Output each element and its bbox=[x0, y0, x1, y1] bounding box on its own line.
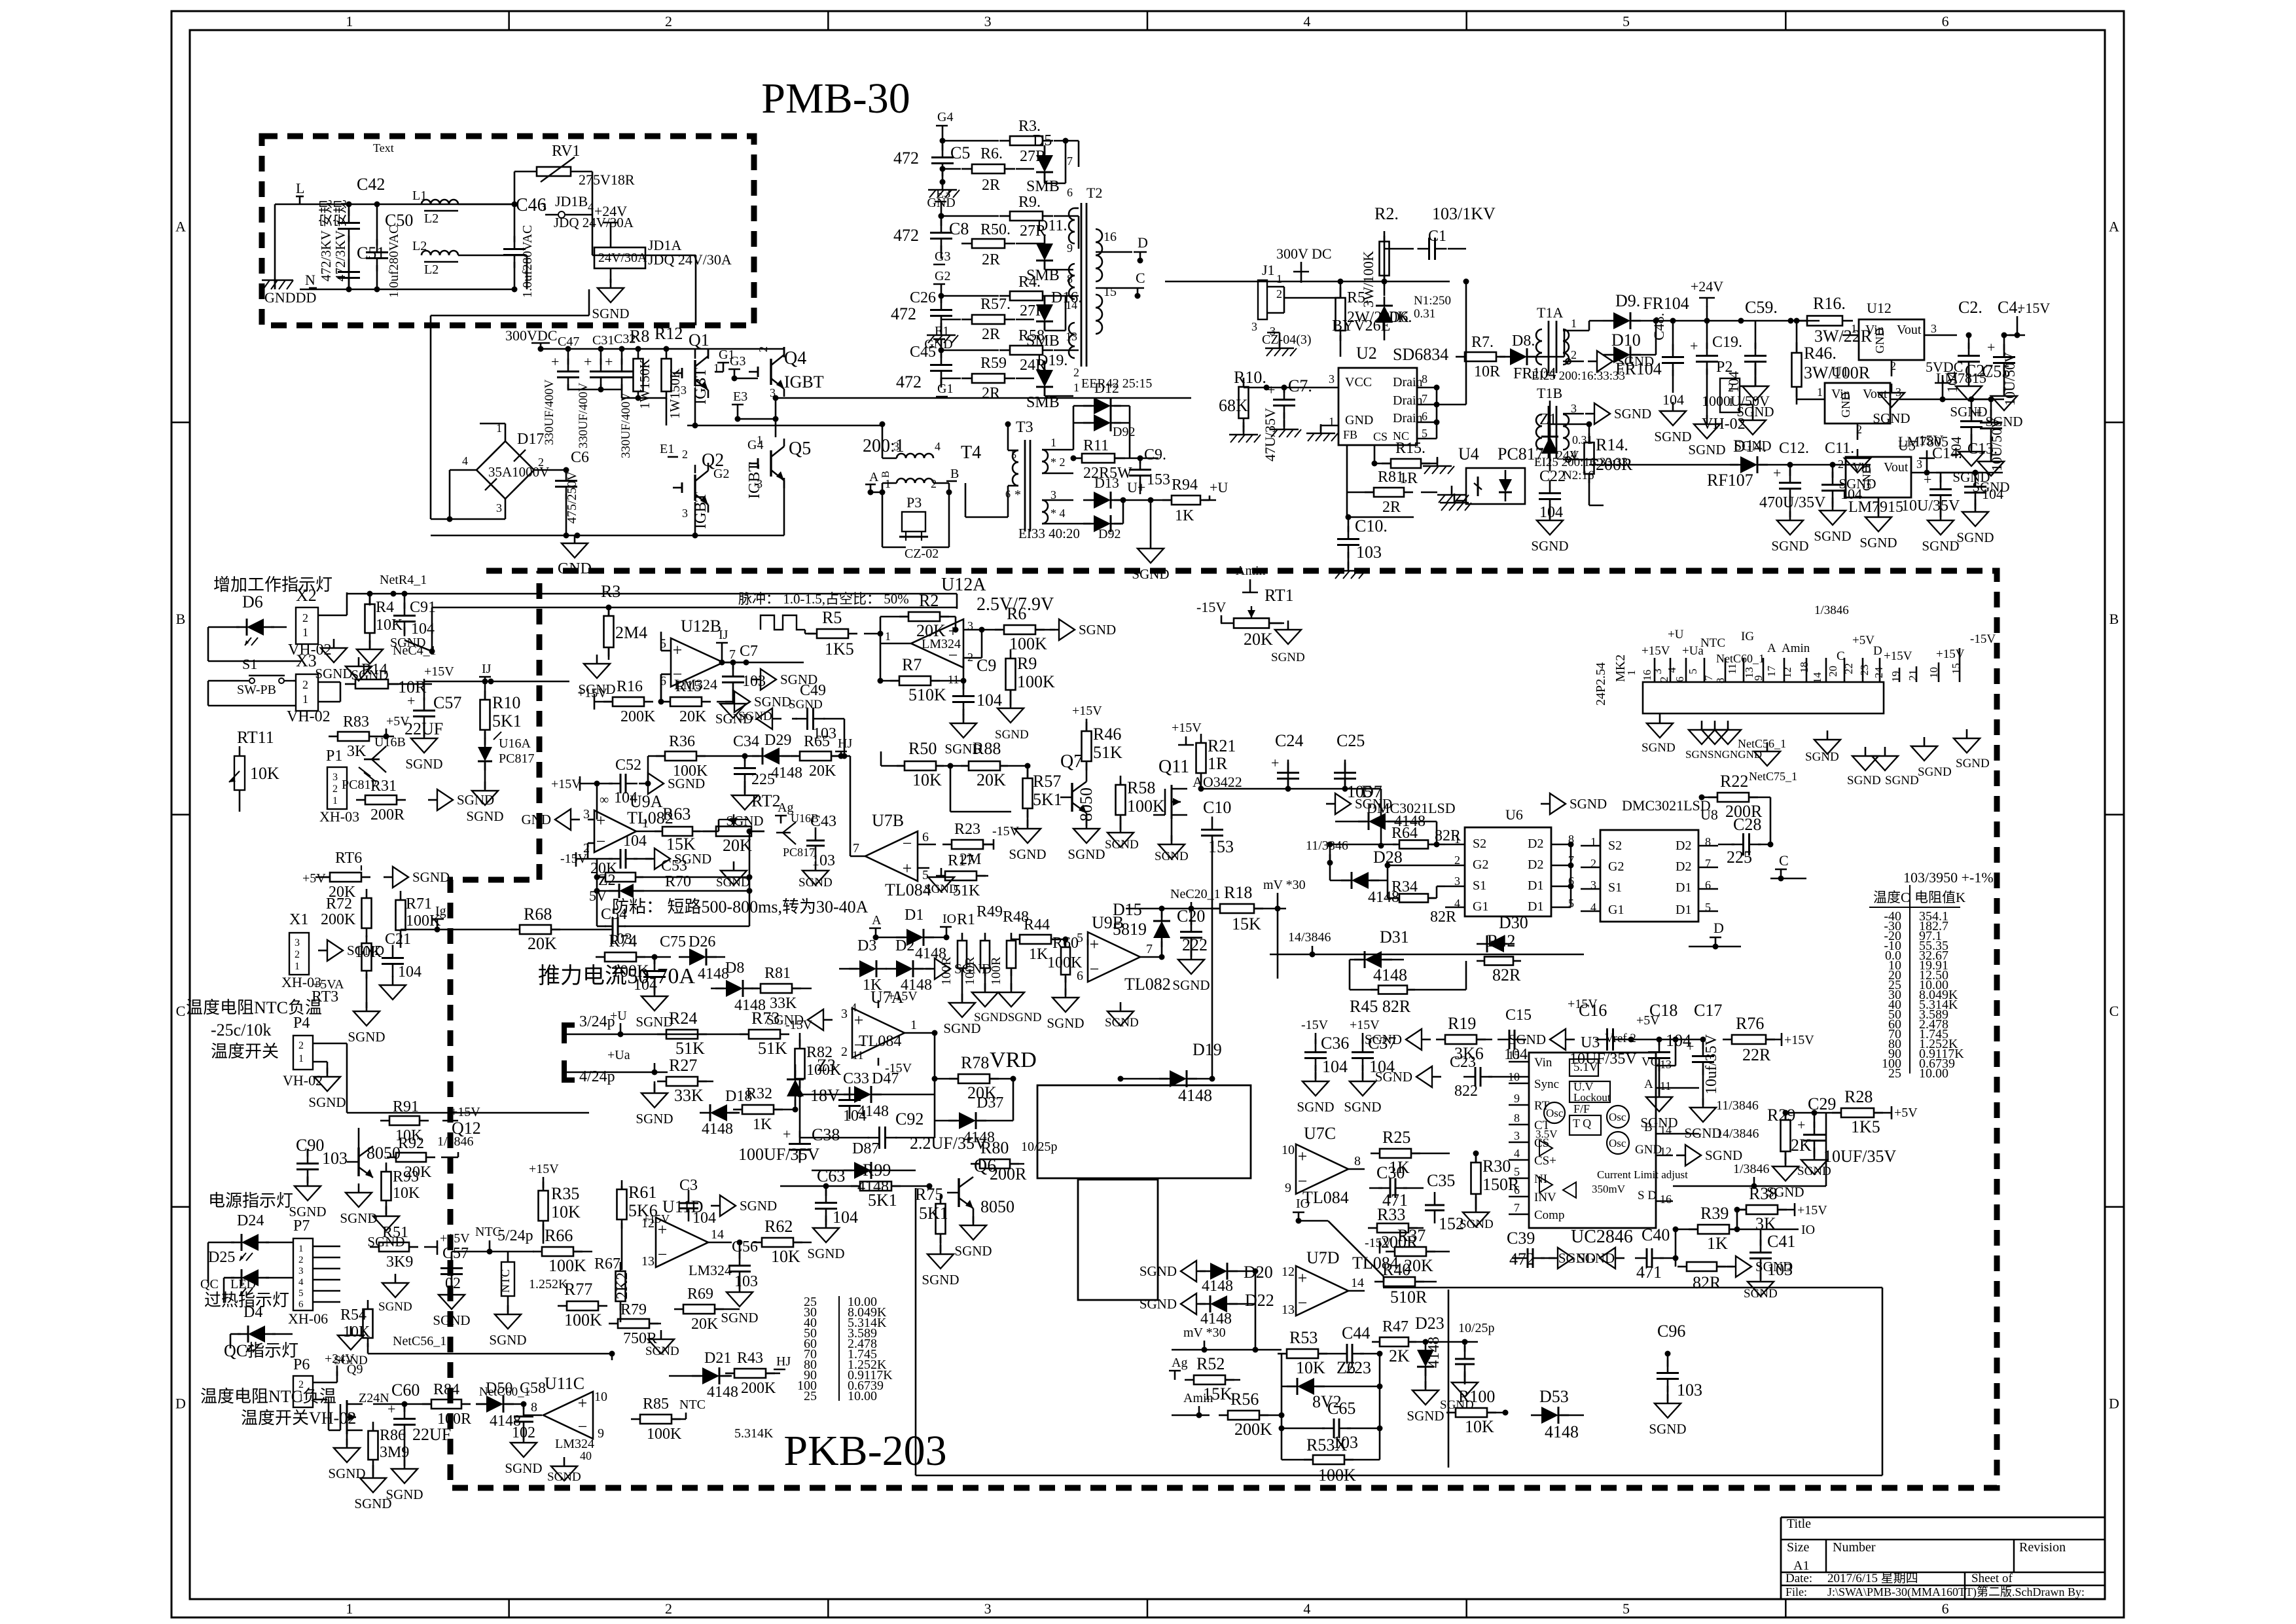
ground C29 bbox=[1814, 1151, 1816, 1160]
svg-text:+: + bbox=[605, 353, 613, 370]
capacitor C51 bbox=[338, 244, 385, 291]
svg-text:C18: C18 bbox=[1649, 1001, 1677, 1020]
svg-text:R74: R74 bbox=[609, 931, 637, 950]
svg-text:R8: R8 bbox=[630, 327, 649, 346]
svg-text:15: 15 bbox=[1508, 1049, 1520, 1062]
svg-text:R85: R85 bbox=[643, 1396, 669, 1413]
ground C17 bbox=[1702, 1098, 1704, 1108]
svg-text:18: 18 bbox=[1798, 662, 1810, 673]
svg-text:mV *30: mV *30 bbox=[1263, 878, 1306, 892]
svg-text:C55: C55 bbox=[1982, 362, 2010, 381]
svg-text:IG: IG bbox=[1741, 630, 1754, 643]
capacitor C13 104 bbox=[1936, 441, 2003, 509]
svg-text:GND: GND bbox=[1345, 413, 1373, 427]
capacitor C17 10uf/35V bbox=[1686, 1001, 1722, 1105]
svg-text:U16B: U16B bbox=[374, 735, 406, 749]
terminal D flag2 bbox=[1689, 920, 1741, 950]
svg-text:300VDC: 300VDC bbox=[505, 327, 557, 344]
svg-text:SGND: SGND bbox=[308, 1094, 346, 1110]
diode D5 SMB bbox=[1016, 132, 1066, 195]
svg-text:T4: T4 bbox=[961, 442, 981, 463]
svg-text:6: 6 bbox=[298, 1299, 304, 1310]
ground C18 bbox=[1659, 1088, 1660, 1097]
svg-text:PC817: PC817 bbox=[499, 751, 534, 766]
resistor R67 2K2 bbox=[594, 1255, 631, 1322]
connector P3 CZ-02 bbox=[882, 492, 949, 561]
diode D7 4148 bbox=[0, 0, 1, 1]
resistor R14 200R bbox=[1550, 424, 1633, 505]
capacitor C36 104 bbox=[1304, 1034, 1349, 1079]
ground Q11 bbox=[1171, 835, 1173, 844]
svg-text:8: 8 bbox=[1514, 1111, 1520, 1125]
ground SGND C91b bbox=[358, 657, 360, 666]
svg-text:24: 24 bbox=[1873, 667, 1885, 679]
svg-text:L1: L1 bbox=[412, 189, 427, 203]
svg-text:QC指示灯: QC指示灯 bbox=[224, 1341, 298, 1360]
svg-text:D15: D15 bbox=[1113, 900, 1142, 919]
svg-text:6: 6 bbox=[1674, 677, 1686, 683]
svg-text:R61: R61 bbox=[628, 1183, 656, 1202]
svg-text:R14.: R14. bbox=[1596, 435, 1628, 454]
svg-text:3.5V: 3.5V bbox=[1535, 1128, 1558, 1140]
svg-text:+15V: +15V bbox=[424, 664, 454, 679]
svg-text:SGND: SGND bbox=[1649, 1421, 1686, 1437]
svg-text:100K: 100K bbox=[1017, 672, 1055, 691]
ground D23 bbox=[1425, 1381, 1427, 1390]
net 14/3846 flag bbox=[1270, 930, 1361, 958]
svg-text:2: 2 bbox=[757, 346, 770, 352]
svg-text:PMB-30: PMB-30 bbox=[761, 75, 910, 122]
svg-text:C10.: C10. bbox=[1355, 516, 1388, 535]
ground U2 GND pin bbox=[1306, 424, 1338, 441]
svg-text:VH-02: VH-02 bbox=[287, 708, 331, 725]
svg-text:+5V: +5V bbox=[386, 714, 410, 729]
svg-text:R76: R76 bbox=[1736, 1014, 1764, 1033]
net 1/3846 out bbox=[1673, 1113, 1826, 1189]
svg-text:SGND: SGND bbox=[1271, 651, 1305, 664]
ground SGND C49 bbox=[772, 718, 781, 720]
svg-text:11/3846: 11/3846 bbox=[1716, 1098, 1759, 1113]
svg-text:+15V: +15V bbox=[577, 686, 607, 700]
svg-text:D14.: D14. bbox=[1733, 437, 1767, 456]
svg-text:R7.: R7. bbox=[1471, 334, 1494, 351]
svg-text:R15: R15 bbox=[675, 678, 702, 695]
resistor R66 100K bbox=[533, 1226, 592, 1275]
svg-text:10: 10 bbox=[1282, 1143, 1295, 1157]
LED D24 bbox=[208, 1212, 293, 1283]
wire Q1 Q4 tops bbox=[695, 347, 784, 359]
ground SGND RT6 bbox=[384, 876, 393, 878]
svg-text:SGND: SGND bbox=[1847, 774, 1881, 787]
svg-text:200K: 200K bbox=[741, 1380, 776, 1397]
ground R57 bbox=[1027, 820, 1029, 829]
svg-text:SGND: SGND bbox=[1407, 1408, 1444, 1424]
svg-text:82R: 82R bbox=[1430, 909, 1456, 926]
svg-text:R18: R18 bbox=[1224, 883, 1252, 902]
svg-text:14/3846: 14/3846 bbox=[1288, 930, 1331, 945]
resistor R16 200K bbox=[594, 678, 656, 725]
svg-text:2R: 2R bbox=[982, 326, 1000, 343]
svg-text:1: 1 bbox=[1851, 322, 1857, 335]
svg-text:P3: P3 bbox=[906, 494, 922, 511]
svg-text:SGND: SGND bbox=[1577, 1250, 1615, 1266]
net NTC flag R85 bbox=[679, 1398, 706, 1419]
power flag 300V DC aux bbox=[1276, 245, 1332, 283]
resistor R4 27R bbox=[941, 274, 1079, 319]
svg-text:104: 104 bbox=[843, 1108, 867, 1125]
resistor R7 510K bbox=[878, 651, 964, 704]
svg-text:Osc: Osc bbox=[1609, 1137, 1626, 1149]
svg-text:FR104: FR104 bbox=[1615, 359, 1662, 378]
svg-text:6: 6 bbox=[1942, 1600, 1949, 1617]
svg-text:R86: R86 bbox=[380, 1427, 406, 1444]
transistor Q4 IGBT bbox=[749, 346, 824, 399]
svg-text:C41: C41 bbox=[1767, 1232, 1795, 1251]
svg-text:R67: R67 bbox=[594, 1255, 620, 1272]
ground C37 bbox=[1362, 1072, 1364, 1081]
svg-text:L2: L2 bbox=[424, 262, 439, 277]
svg-text:150R: 150R bbox=[1482, 1175, 1520, 1194]
capacitor C26 472 bbox=[891, 289, 952, 333]
svg-text:−: − bbox=[596, 832, 606, 851]
switch S1 SW-PB bbox=[208, 656, 296, 706]
svg-text:HJ: HJ bbox=[776, 1354, 791, 1369]
ground C56 bbox=[739, 1283, 741, 1292]
svg-text:R57.: R57. bbox=[980, 296, 1011, 313]
svg-text:−: − bbox=[1298, 1293, 1308, 1312]
svg-text:4148: 4148 bbox=[1202, 1278, 1233, 1295]
svg-text:SGND: SGND bbox=[789, 698, 823, 712]
IC U3 UC2846 box bbox=[0, 0, 1, 1]
svg-text:3: 3 bbox=[1251, 320, 1257, 333]
svg-text:+: + bbox=[1298, 1269, 1308, 1288]
svg-text:14: 14 bbox=[1066, 298, 1077, 312]
svg-text:1K5: 1K5 bbox=[825, 640, 854, 659]
ground SGND X1 bbox=[318, 950, 327, 952]
terminal C flag2 bbox=[1770, 852, 1806, 882]
svg-text:NetC60_1: NetC60_1 bbox=[1716, 652, 1765, 665]
ground R30 bbox=[1475, 1203, 1477, 1212]
svg-text:SGND: SGND bbox=[1797, 1164, 1831, 1178]
svg-text:U7C: U7C bbox=[1304, 1124, 1336, 1143]
svg-text:3: 3 bbox=[893, 440, 899, 453]
LED D25 bbox=[208, 1249, 293, 1303]
svg-text:SGND: SGND bbox=[716, 876, 750, 890]
svg-text:C90: C90 bbox=[296, 1136, 324, 1155]
resistor R92 20K bbox=[387, 1134, 474, 1181]
diode D19 SMB bbox=[1016, 352, 1073, 411]
svg-text:C33: C33 bbox=[843, 1070, 869, 1087]
power flag +Ua bbox=[607, 1048, 655, 1072]
svg-text:SGND: SGND bbox=[489, 1332, 526, 1348]
svg-text:6: 6 bbox=[1005, 489, 1011, 500]
svg-text:G2: G2 bbox=[935, 269, 950, 283]
svg-text:275V18R: 275V18R bbox=[579, 171, 635, 188]
svg-text:1: 1 bbox=[885, 630, 891, 643]
svg-text:+: + bbox=[1974, 405, 1982, 421]
svg-text:SGND: SGND bbox=[1805, 750, 1839, 764]
svg-text:EI25 200:16:33:33: EI25 200:16:33:33 bbox=[1534, 456, 1628, 469]
svg-text:+: + bbox=[1797, 1117, 1805, 1133]
svg-text:2: 2 bbox=[1276, 287, 1282, 300]
svg-text:5.314K: 5.314K bbox=[734, 1426, 774, 1441]
diode D22 4148 bbox=[1200, 1271, 1274, 1350]
svg-text:GND: GND bbox=[1873, 328, 1886, 353]
svg-text:100K: 100K bbox=[564, 1310, 602, 1329]
svg-text:C22: C22 bbox=[1539, 468, 1566, 485]
svg-text:10.00: 10.00 bbox=[1919, 1066, 1948, 1081]
svg-text:SGND: SGND bbox=[1744, 1287, 1778, 1301]
svg-text:R70: R70 bbox=[665, 873, 691, 890]
wire N rail bbox=[300, 289, 517, 291]
resistor R14 10R bbox=[345, 661, 427, 696]
node E1 flag bbox=[660, 442, 678, 457]
svg-text:FB: FB bbox=[1343, 428, 1357, 441]
ground C55 bbox=[1972, 452, 2009, 495]
svg-text:S2: S2 bbox=[1608, 839, 1622, 853]
svg-text:330UF/400V: 330UF/400V bbox=[619, 392, 633, 458]
svg-text:20K: 20K bbox=[528, 934, 557, 953]
svg-text:8050: 8050 bbox=[980, 1197, 1014, 1216]
power flag +15V R21 bbox=[1172, 721, 1202, 745]
svg-text:D29: D29 bbox=[764, 732, 791, 749]
ground SGND RT2 bbox=[733, 861, 735, 871]
svg-text:11/3846: 11/3846 bbox=[1306, 839, 1348, 853]
capacitor C7 103 bbox=[722, 643, 766, 700]
svg-text:R25: R25 bbox=[1382, 1128, 1410, 1147]
svg-text:7: 7 bbox=[1146, 942, 1153, 956]
bracket 24p heavy bbox=[564, 1025, 575, 1080]
svg-text:SGND: SGND bbox=[954, 1243, 992, 1259]
svg-text:L: L bbox=[296, 180, 304, 196]
svg-text:10UF/35V: 10UF/35V bbox=[1823, 1147, 1896, 1166]
svg-text:−: − bbox=[658, 1245, 668, 1264]
svg-text:3: 3 bbox=[1514, 1129, 1520, 1142]
svg-text:C54: C54 bbox=[601, 906, 627, 923]
wire rail branches U6 bbox=[1285, 763, 1384, 849]
ground R60 bbox=[1065, 988, 1067, 998]
capacitor C48 104 bbox=[1651, 313, 1684, 408]
ground NTC box bbox=[507, 1305, 509, 1314]
svg-text:推力电流50-70A: 推力电流50-70A bbox=[538, 964, 695, 988]
ground SGND transformer output bbox=[1132, 500, 1169, 582]
svg-text:Date:: Date: bbox=[1785, 1572, 1812, 1585]
svg-text:R33: R33 bbox=[1377, 1205, 1405, 1224]
svg-text:B: B bbox=[950, 467, 959, 481]
resistor R29 2K bbox=[1767, 1106, 1812, 1164]
resistor R86 3M9 bbox=[368, 1422, 410, 1476]
resistor R68 20K bbox=[511, 905, 613, 953]
capacitor C18 104 bbox=[1631, 1001, 1703, 1094]
ground Q7 bbox=[1086, 820, 1088, 829]
svg-text:X2: X2 bbox=[296, 586, 317, 605]
temperature table main bbox=[1869, 869, 1994, 1081]
svg-text:C75: C75 bbox=[660, 933, 686, 950]
net IO flag right bbox=[1761, 1223, 1815, 1237]
svg-text:SGND: SGND bbox=[1814, 528, 1851, 544]
svg-text:100K: 100K bbox=[1009, 634, 1047, 653]
svg-text:SGND: SGND bbox=[433, 1312, 470, 1328]
svg-text:10R: 10R bbox=[1474, 363, 1500, 380]
svg-text:XH-06: XH-06 bbox=[288, 1310, 328, 1327]
diode D11 SMB bbox=[1016, 217, 1073, 284]
capacitor C9 153 bbox=[1129, 446, 1170, 494]
svg-text:2R: 2R bbox=[982, 251, 1000, 268]
inductor L2 bbox=[412, 239, 527, 289]
svg-text:C45: C45 bbox=[910, 344, 936, 361]
svg-text:R29: R29 bbox=[1767, 1106, 1795, 1125]
power flag +15V Q7 bbox=[1072, 704, 1102, 720]
ground SGND R41 bbox=[1727, 1266, 1736, 1268]
resistor R31 200R bbox=[356, 778, 406, 823]
net 14/3846 out bbox=[1716, 1127, 1759, 1141]
svg-text:R10: R10 bbox=[492, 693, 520, 712]
svg-text:R83: R83 bbox=[343, 713, 369, 731]
svg-text:+15V: +15V bbox=[1172, 721, 1202, 735]
diode D23 4148 bbox=[1415, 1314, 1495, 1388]
wire caps bottom rail bbox=[568, 387, 666, 426]
ground C12 bbox=[1789, 511, 1791, 520]
capacitor C16 body bbox=[1570, 1013, 1660, 1068]
svg-text:1: 1 bbox=[1571, 317, 1577, 330]
svg-text:R51: R51 bbox=[382, 1224, 408, 1241]
svg-text:D8.: D8. bbox=[1512, 333, 1535, 350]
diode D14 RF107 bbox=[1589, 437, 1793, 490]
resistor R8 1W150K bbox=[630, 327, 653, 409]
diode D15 5819 bbox=[1113, 900, 1170, 960]
resistor R77 100K bbox=[558, 1280, 607, 1329]
ground C-d23 bbox=[1440, 1373, 1478, 1412]
capacitor C59 104 bbox=[1725, 298, 1778, 393]
svg-text:C39: C39 bbox=[1507, 1229, 1535, 1248]
resistor R100 10K bbox=[1446, 1387, 1509, 1436]
resistor R74 100K bbox=[596, 931, 671, 981]
resistor R9 27R bbox=[941, 194, 1079, 240]
svg-text:SGNDSGND: SGNDSGND bbox=[974, 1011, 1041, 1024]
svg-text:C40: C40 bbox=[1641, 1225, 1670, 1244]
transistor Q9 Z24N bbox=[329, 1362, 389, 1445]
svg-text:Q4: Q4 bbox=[784, 348, 806, 369]
svg-text:R50.: R50. bbox=[980, 221, 1011, 238]
svg-text:100R: 100R bbox=[989, 956, 1003, 985]
relay contact JD1B bbox=[541, 171, 696, 325]
svg-text:D20: D20 bbox=[1244, 1263, 1273, 1282]
svg-text:Q9: Q9 bbox=[347, 1362, 363, 1377]
capacitor C96 103 bbox=[1657, 1322, 1702, 1401]
ground U5 bbox=[1859, 508, 1897, 550]
resistor R38 3K bbox=[1734, 1184, 1795, 1233]
svg-text:1: 1 bbox=[910, 1018, 917, 1032]
power flag -15V C36 bbox=[1301, 1018, 1329, 1044]
capacitor C50 bbox=[366, 202, 413, 298]
ground SGND DMC U6 bbox=[1326, 803, 1335, 805]
svg-text:C12.: C12. bbox=[1779, 440, 1809, 457]
svg-text:Text: Text bbox=[373, 141, 394, 154]
svg-text:C65: C65 bbox=[1327, 1399, 1355, 1418]
power flag +15V U11D bbox=[643, 1212, 670, 1225]
resistor R25 1K bbox=[1371, 1128, 1450, 1177]
svg-text:100K: 100K bbox=[1318, 1466, 1356, 1485]
svg-text:U7B: U7B bbox=[872, 811, 904, 830]
svg-text:0.31: 0.31 bbox=[1414, 307, 1435, 321]
power flag -15V U7A bbox=[885, 1061, 912, 1075]
svg-text:N: N bbox=[305, 272, 315, 288]
resistor R81 33K bbox=[751, 965, 812, 1012]
capacitor C24 bbox=[1271, 731, 1303, 792]
svg-text:R66: R66 bbox=[545, 1226, 573, 1245]
wire 3/24p row bbox=[564, 1013, 749, 1038]
opamp U11D LM324 bbox=[641, 1197, 732, 1278]
ground SGND T1A bbox=[1588, 361, 1597, 363]
svg-text:10K: 10K bbox=[1465, 1417, 1494, 1436]
svg-text:510K: 510K bbox=[908, 685, 946, 704]
capacitor C23 822 bbox=[1450, 1054, 1529, 1100]
resistor R70 20K bbox=[590, 829, 753, 927]
potentiometer RT2 20K bbox=[703, 791, 781, 855]
svg-text:D24: D24 bbox=[237, 1212, 264, 1229]
svg-text:D10: D10 bbox=[1611, 331, 1641, 350]
svg-text:U16A: U16A bbox=[499, 736, 531, 751]
svg-text:4148: 4148 bbox=[1373, 965, 1407, 984]
svg-text:F/F: F/F bbox=[1573, 1102, 1590, 1115]
svg-text:20K: 20K bbox=[809, 763, 836, 780]
svg-text:R15.: R15. bbox=[1395, 440, 1426, 457]
resistor R24 51K bbox=[657, 1009, 707, 1058]
resistor R16 3W/22R bbox=[1797, 294, 1873, 346]
ground R9 bbox=[1010, 699, 1012, 708]
svg-text:JD1B: JD1B bbox=[555, 193, 588, 209]
svg-text:R6: R6 bbox=[1007, 604, 1026, 623]
diode D87 4148 bbox=[812, 1140, 916, 1195]
power flag +15V U7A bbox=[888, 989, 918, 1003]
diode D3 1K bbox=[839, 937, 887, 994]
svg-text:D2: D2 bbox=[895, 937, 914, 954]
svg-text:2R: 2R bbox=[982, 385, 1000, 402]
capacitor C90 103 bbox=[296, 1136, 348, 1183]
svg-text:3: 3 bbox=[757, 477, 762, 490]
svg-text:QC: QC bbox=[200, 1277, 219, 1291]
ground SGND C23 bbox=[1432, 1076, 1441, 1078]
svg-text:+15V: +15V bbox=[450, 1105, 480, 1119]
capacitor C19 1000U/50V bbox=[1690, 321, 1770, 419]
ground SGND D20 D22 bbox=[1139, 1261, 1206, 1314]
svg-text:D25: D25 bbox=[208, 1249, 235, 1266]
svg-text:R2.: R2. bbox=[1374, 204, 1399, 223]
ground C59 bbox=[1755, 377, 1757, 386]
svg-text:3: 3 bbox=[682, 507, 688, 520]
svg-text:G2: G2 bbox=[1608, 859, 1624, 874]
resistor R40 510R bbox=[1374, 1260, 1437, 1307]
svg-text:C6: C6 bbox=[571, 449, 589, 466]
svg-text:R16: R16 bbox=[617, 678, 643, 695]
ground R1 bbox=[961, 994, 963, 1003]
wire EMI output to bridge bbox=[431, 289, 589, 522]
resistor R14b 200R bbox=[0, 0, 1, 1]
resistor R15 20K bbox=[658, 674, 732, 725]
terminal A flag2 bbox=[869, 913, 882, 941]
ground C60 bbox=[404, 1460, 406, 1469]
capacitor C35 152 bbox=[1425, 1171, 1464, 1233]
transistor Q5 IGBT bbox=[746, 433, 811, 499]
svg-text:X1: X1 bbox=[289, 911, 308, 928]
resistor R73 51K bbox=[740, 1009, 789, 1058]
diode D7 4148 b bbox=[1335, 782, 1445, 848]
svg-text:4: 4 bbox=[462, 454, 468, 467]
ground SGND RT3 bbox=[366, 1002, 368, 1011]
svg-text:C44: C44 bbox=[1342, 1324, 1370, 1343]
node G1 flag bbox=[715, 348, 734, 372]
svg-text:B: B bbox=[2109, 611, 2119, 627]
